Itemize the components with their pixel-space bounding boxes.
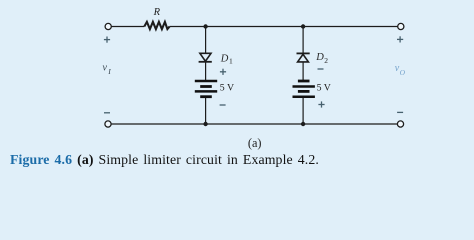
svg-text:O: O — [400, 68, 406, 77]
wire: D2 branch lower — [302, 98, 304, 124]
svg-text:R: R — [153, 7, 161, 18]
svg-text:D: D — [220, 53, 229, 64]
node junction D1 top — [203, 24, 207, 28]
plus sign battery B1 — [220, 69, 226, 75]
battery B2 5V — [293, 81, 315, 97]
diode D1 — [199, 53, 212, 62]
resistor R — [144, 22, 169, 29]
node junction D2 top — [301, 24, 305, 28]
wire: D2 to battery — [302, 62, 304, 80]
svg-text:Figure 4.6 (a) Simple limiter: Figure 4.6 (a) Simple limiter circuit in… — [10, 152, 319, 168]
diode D2 — [297, 53, 310, 62]
wire: top rail left segment — [112, 26, 145, 28]
terminal: input bottom — [105, 121, 111, 127]
minus sign input — [104, 112, 110, 114]
wire: top rail right segment — [170, 26, 398, 28]
svg-text:5 V: 5 V — [317, 83, 331, 94]
svg-text:5 V: 5 V — [220, 83, 234, 94]
terminal: output bottom — [397, 121, 403, 127]
svg-text:2: 2 — [324, 56, 328, 65]
background panel — [0, 0, 474, 181]
node junction D1 bottom — [203, 122, 207, 126]
svg-text:v: v — [103, 63, 108, 74]
svg-text:1: 1 — [229, 56, 233, 65]
battery B1 5V — [195, 81, 217, 97]
svg-text:I: I — [107, 67, 111, 76]
wire: D2 branch upper — [302, 27, 304, 54]
terminal: input top — [105, 23, 111, 29]
svg-text:(a): (a) — [248, 136, 262, 150]
wire: D1 to battery — [205, 62, 207, 80]
wire: D1 branch lower — [205, 98, 207, 124]
node junction D2 bottom — [301, 122, 305, 126]
minus sign output — [397, 111, 403, 113]
minus sign battery B1 — [220, 104, 226, 106]
terminal: output top — [398, 23, 404, 29]
svg-text:D: D — [315, 52, 324, 63]
wire: bottom rail — [111, 123, 397, 125]
plus sign output — [397, 36, 403, 42]
minus sign battery B2 — [318, 68, 324, 70]
wire: D1 branch upper — [205, 27, 207, 54]
plus sign input — [104, 37, 110, 43]
plus sign battery B2 — [318, 101, 324, 107]
